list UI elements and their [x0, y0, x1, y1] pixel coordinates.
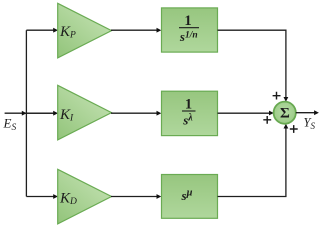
wire: branch to KP	[26, 29, 54, 31]
arrowhead up into summer bottom	[284, 124, 289, 129]
wire: branch to KD	[26, 196, 54, 198]
plus sign top	[273, 92, 281, 100]
gain block KD (triangle)	[58, 169, 112, 224]
arrowhead into KI	[53, 111, 58, 116]
block 1/s^lambda (rectangle)	[162, 91, 218, 135]
arrowhead into block 1/s^(1/n)	[157, 28, 162, 33]
arrowhead into block s^mu	[157, 194, 162, 199]
wire: branch to KI	[26, 112, 54, 114]
wire: KP to integrator block	[111, 29, 157, 31]
arrowhead into block 1/s^lambda	[157, 111, 162, 116]
svg-text:ES: ES	[3, 116, 17, 134]
wire: KD to block	[111, 196, 157, 198]
gain block KP (triangle)	[58, 3, 112, 58]
wire: vertical branch line	[25, 30, 27, 196]
wire: input ES line	[5, 112, 56, 114]
arrowhead down into summer top	[284, 97, 289, 102]
svg-text:1: 1	[185, 96, 192, 112]
summer (sigma circle)	[274, 102, 296, 124]
fraction bar	[182, 110, 196, 112]
arrowhead output	[314, 110, 319, 115]
wire: output YS	[296, 112, 315, 114]
fraction bar	[179, 27, 199, 29]
arrowhead into summer left	[269, 111, 274, 116]
block s^mu (rectangle)	[162, 175, 218, 219]
block 1/s^(1/n) (rectangle)	[162, 8, 218, 52]
wire: block3 to summer (bottom feed)	[218, 128, 286, 197]
svg-text:Σ: Σ	[280, 106, 290, 122]
arrowhead into KD	[53, 194, 58, 199]
wire: block1 to summer (top feed)	[218, 30, 286, 97]
gain block KI (triangle)	[58, 85, 112, 140]
svg-text:YS: YS	[304, 116, 316, 132]
arrowhead into KP	[53, 28, 58, 33]
wire: KI to block	[111, 112, 157, 114]
wire: block2 to summer (left feed)	[218, 112, 271, 114]
plus sign left	[263, 116, 271, 124]
arrowhead into branch node	[22, 111, 27, 116]
plus sign bottom	[290, 125, 298, 133]
svg-text:1: 1	[184, 13, 191, 29]
